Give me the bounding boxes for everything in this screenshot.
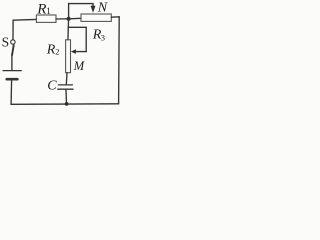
resistor R1	[36, 15, 56, 22]
wire bottom rail	[11, 103, 119, 106]
capacitor C top plate	[58, 84, 72, 86]
wire top-left horizontal (battery+ to R1)	[13, 18, 36, 21]
svg-text:N: N	[97, 0, 108, 15]
wire R1 to node A	[56, 18, 69, 20]
wire wiper M vertical	[85, 27, 87, 51]
wire switch blade to battery	[11, 55, 13, 70]
svg-text:C: C	[47, 79, 57, 94]
svg-text:1: 1	[46, 6, 51, 16]
battery negative plate (short thick)	[7, 78, 17, 81]
wiper arrow N shaft	[92, 4, 94, 7]
wire R3 right end to right rail	[111, 16, 119, 18]
wire node A down to R2	[67, 19, 70, 40]
wire node A to R3 left end	[69, 17, 81, 20]
svg-text:M: M	[73, 59, 85, 73]
wire top-left vertical (to switch)	[12, 20, 14, 39]
svg-text:3: 3	[101, 32, 105, 42]
wire capacitor to bottom rail	[65, 90, 68, 104]
svg-text:R: R	[36, 1, 46, 17]
wire right rail	[118, 17, 121, 104]
resistor R3 (potentiometer track)	[81, 14, 111, 21]
svg-text:R: R	[46, 42, 56, 57]
wire R2 to capacitor C	[65, 73, 68, 85]
switch S terminal circle	[11, 40, 15, 44]
resistor R2	[66, 40, 71, 73]
switch S blade	[12, 45, 14, 55]
node B (junction dot, bottom)	[65, 102, 69, 106]
svg-text:2: 2	[55, 47, 59, 57]
wire wiper N horizontal	[69, 3, 93, 5]
svg-text:S: S	[2, 35, 10, 50]
wiper arrow M head	[71, 49, 76, 54]
battery positive plate (long thin)	[3, 70, 21, 72]
wiper arrow M shaft	[76, 51, 87, 53]
wire wiper N riser	[68, 4, 70, 19]
wiper arrow N head	[91, 6, 96, 13]
wire wiper M horizontal top	[68, 26, 86, 28]
wire left rail lower (battery- to bottom rail)	[10, 80, 13, 105]
capacitor C bottom plate	[58, 88, 73, 90]
node A (junction dot, top)	[67, 17, 71, 21]
